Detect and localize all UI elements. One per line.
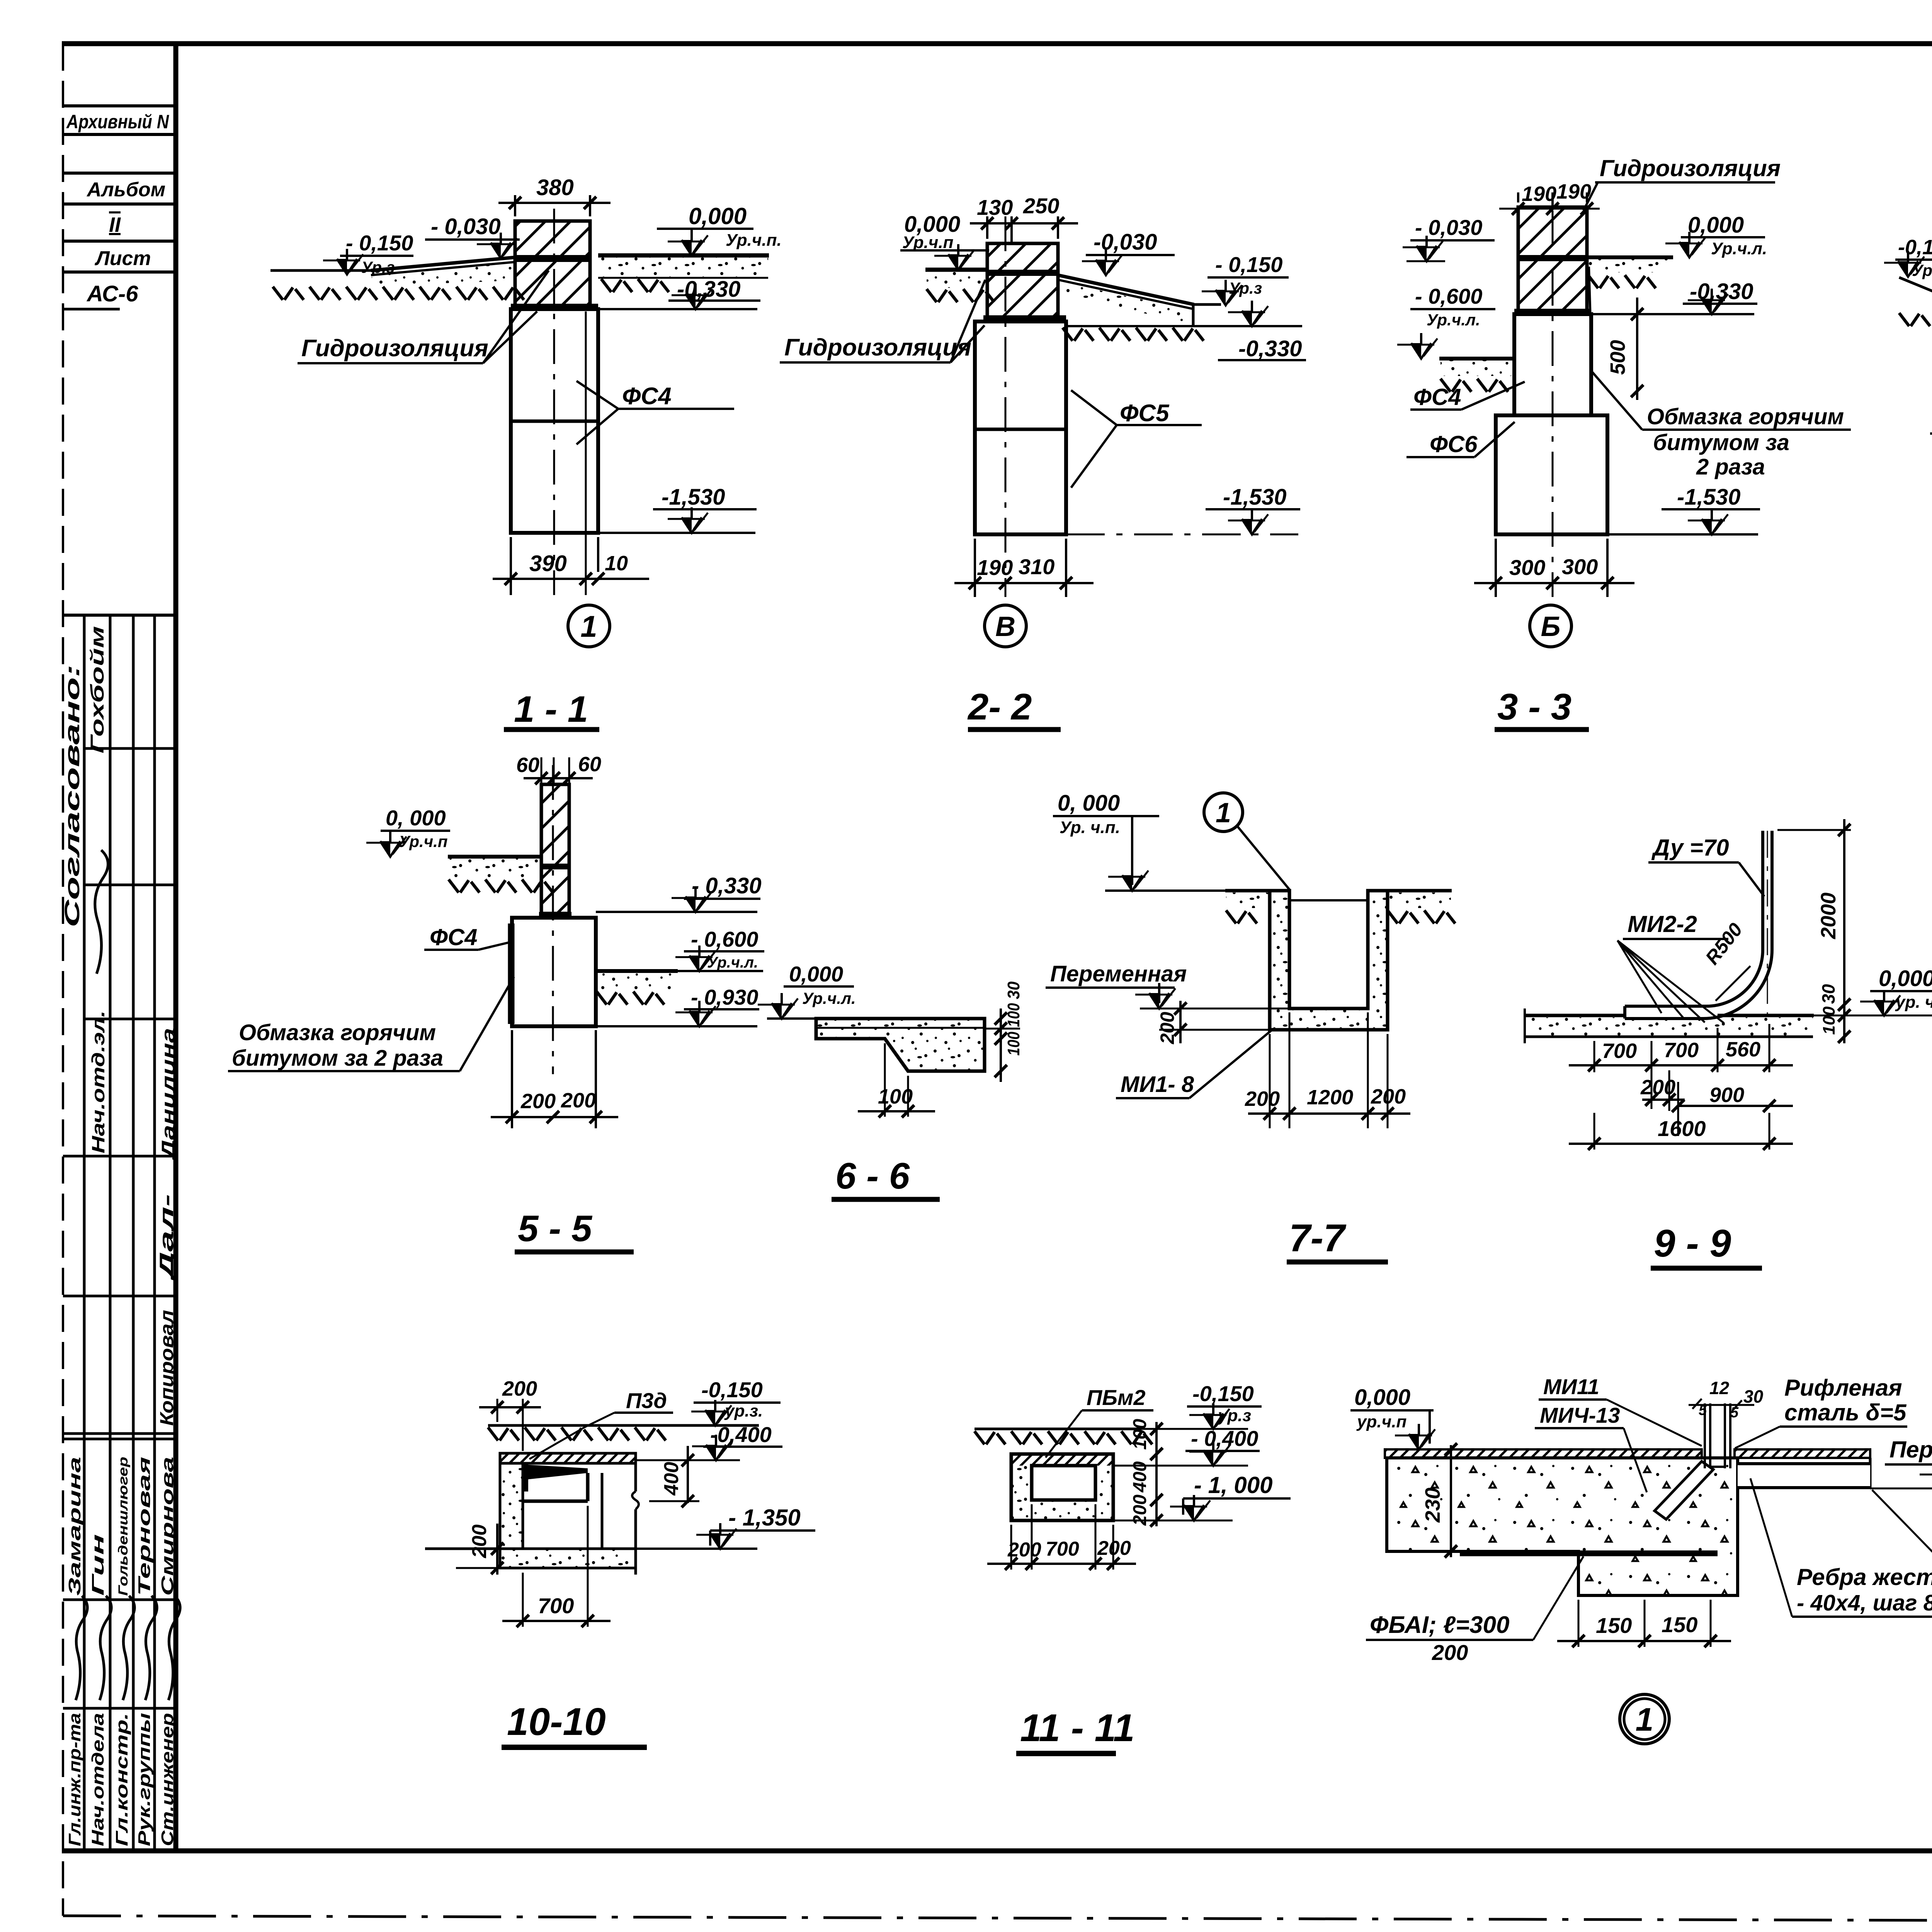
section 10-10 top dim 200 (497, 1399, 498, 1422)
section 3-3 floor left (-0.600) (1439, 357, 1514, 361)
section 11-11 level -0.400 (1185, 1450, 1260, 1452)
section 9-9 dim row3 1600 (1594, 1113, 1595, 1150)
svg-text:-0,150: -0,150 (701, 1378, 763, 1402)
svg-text:100: 100 (878, 1085, 913, 1108)
svg-text:30: 30 (1818, 984, 1838, 1004)
svg-text:Ур.з: Ур.з (1912, 261, 1932, 279)
svg-text:-1,530: -1,530 (1677, 485, 1740, 510)
signatures (squiggles) (76, 1596, 87, 1700)
svg-text:ФС4: ФС4 (430, 924, 478, 950)
svg-text:-0,330: -0,330 (1238, 336, 1302, 361)
svg-text:12: 12 (1709, 1378, 1730, 1398)
svg-text:Ст.инженер: Ст.инженер (158, 1713, 177, 1846)
section 5-5 thin wall (hatched) (541, 784, 569, 913)
section 4-4 level -0.150 ur.z far left (1895, 259, 1932, 261)
section 9-9 floor slab (1525, 1014, 1625, 1017)
svg-text:Гл.констр.: Гл.констр. (112, 1713, 131, 1846)
section 1-1 level -0.150 ur.z left (340, 255, 413, 257)
svg-text:1: 1 (580, 609, 597, 643)
section 7-7 detail circle 1 with leader (1204, 793, 1243, 832)
svg-text:- 0,330: - 0,330 (692, 873, 762, 898)
section 2-2 bottom dims 190 / 310 (974, 539, 976, 597)
svg-text:-0,150: -0,150 (1898, 236, 1932, 259)
svg-text:1: 1 (1636, 1701, 1654, 1738)
svg-text:100: 100 (1130, 1419, 1150, 1450)
svg-text:Дал-: Дал- (156, 1194, 177, 1282)
svg-text:- 0,150: - 0,150 (1215, 252, 1282, 277)
section 9-9 level 0.000 (1870, 990, 1932, 992)
section 3-3 level 0.000 right (1681, 236, 1765, 238)
section 10-10 level -1.350 (710, 1529, 815, 1532)
svg-text:200: 200 (468, 1524, 491, 1558)
section 3-3 wall (hatched) (1518, 207, 1587, 314)
svg-text:560: 560 (1726, 1038, 1760, 1061)
svg-text:-1,530: -1,530 (1223, 485, 1286, 510)
svg-text:В: В (995, 611, 1015, 642)
svg-text:10-10: 10-10 (507, 1700, 606, 1743)
svg-text:битумом за 2 раза: битумом за 2 раза (232, 1046, 443, 1071)
svg-text:Ур. ч.п.: Ур. ч.п. (1060, 818, 1120, 837)
svg-text:200: 200 (1640, 1076, 1675, 1099)
section 1-1 level 0.000 ur.ch.p right (657, 228, 753, 230)
svg-text:Переменная: Переменная (1889, 1437, 1932, 1463)
svg-text:- 0,030: - 0,030 (431, 214, 501, 239)
section 10-10 bottom dim 700 (522, 1573, 524, 1627)
node 1 vertical plates (riffled steel channel) (1704, 1403, 1706, 1468)
svg-text:700: 700 (538, 1594, 574, 1618)
section 10-10 level -0.400 (703, 1446, 782, 1448)
section 9-9 right vertical dim 2000/30/100 (1843, 819, 1845, 1043)
border frame top (62, 41, 1932, 46)
svg-text:9 - 9: 9 - 9 (1654, 1222, 1731, 1265)
left strip: Albom box (63, 172, 176, 175)
svg-text:Рифленая: Рифленая (1784, 1375, 1902, 1401)
section 1-1 centerline (553, 209, 555, 595)
svg-text:Переменная: Переменная (1050, 961, 1187, 986)
svg-text:Ур.ч.п.: Ур.ч.п. (726, 231, 782, 250)
svg-text:100: 100 (1004, 1003, 1023, 1027)
left strip: II (63, 240, 176, 243)
left strip: AC-6 (64, 308, 120, 311)
node 1 anchor MICh-13 diagonal strip (1655, 1461, 1713, 1519)
node 1 FBAI thick bar (1460, 1551, 1718, 1556)
svg-text:10: 10 (605, 552, 628, 575)
section 10-10 dim 400 vertical (687, 1446, 689, 1503)
section 5-5 bottom dims 200 200 (511, 1030, 513, 1128)
section 10-10 exterior grade line left (425, 1548, 500, 1550)
svg-text:- 0,030: - 0,030 (1415, 215, 1482, 240)
section 1-1 level -1.530 (598, 532, 755, 534)
svg-text:П3д: П3д (626, 1388, 667, 1413)
svg-text:Ур.ч.л.: Ур.ч.л. (1427, 311, 1480, 329)
section 6-6 right vertical dims 30 100 100 (1000, 1009, 1002, 1082)
svg-text:Обмазка горячим: Обмазка горячим (1647, 404, 1844, 429)
svg-text:1200: 1200 (1307, 1086, 1353, 1109)
section 9-9 bottom dims row1 700 700 560 (1594, 1041, 1595, 1072)
section 3-3 level -1.530 (1607, 533, 1758, 536)
section 5-5 level -0.330 (596, 911, 757, 913)
left strip: List box (63, 270, 176, 274)
svg-text:Ур.ч.л.: Ур.ч.л. (802, 989, 856, 1007)
svg-text:-1,530: -1,530 (662, 485, 725, 510)
section 10-10 bottom slab (stippled) (500, 1549, 636, 1568)
svg-text:- 0,150: - 0,150 (346, 231, 413, 255)
section 5-5 top dims 60 60 (524, 777, 593, 779)
svg-text:700: 700 (1046, 1538, 1079, 1560)
svg-text:Гл.инж.пр-та: Гл.инж.пр-та (65, 1713, 84, 1846)
svg-text:390: 390 (529, 551, 567, 576)
section 5-5 level -0.930 (596, 1025, 757, 1027)
svg-text:190: 190 (1556, 180, 1591, 203)
section 10-10 left wall (stippled) (500, 1463, 523, 1549)
svg-text:Смирнова: Смирнова (158, 1457, 177, 1596)
svg-text:190: 190 (1522, 182, 1556, 206)
svg-text:Лист: Лист (94, 247, 151, 270)
section 11-11 bottom dims 200 700 200 (1010, 1525, 1012, 1570)
svg-text:ФС4: ФС4 (1413, 384, 1461, 410)
svg-text:МИ1- 8: МИ1- 8 (1121, 1072, 1194, 1097)
node 1 floor finish hatched band (1385, 1449, 1702, 1458)
section 1-1 level -0.330 (598, 308, 757, 310)
section 5-5 centerline (552, 765, 554, 1074)
svg-text:ПБм2: ПБм2 (1087, 1385, 1146, 1410)
svg-text:Ур.з: Ур.з (361, 258, 395, 276)
svg-text:МИЧ-13: МИЧ-13 (1540, 1403, 1620, 1427)
svg-text:- 1, 000: - 1, 000 (1194, 1472, 1272, 1498)
svg-text:200: 200 (1097, 1537, 1131, 1560)
svg-text:200: 200 (502, 1377, 537, 1400)
section 1-1 axis circle 1 (568, 605, 610, 647)
section 7-7 left vertical dim 200 (1159, 1029, 1270, 1031)
section 7-7 channel trench (U shape, stippled walls) (1270, 891, 1388, 1030)
svg-text:200: 200 (1007, 1539, 1041, 1561)
section 2-2 foundation block FS5 (975, 321, 1066, 534)
section 11-11 walls stipple (1011, 1466, 1113, 1520)
svg-text:Б: Б (1541, 611, 1561, 642)
section 1-1 waterproofing band lower (511, 304, 598, 310)
section 5-5 foundation block FS4 (512, 918, 596, 1026)
svg-text:30: 30 (1004, 981, 1023, 999)
svg-text:190: 190 (977, 555, 1013, 580)
section 6-6 floor slab with edge thickening (816, 1019, 985, 1071)
svg-text:Гольденшлюгер: Гольденшлюгер (116, 1457, 131, 1596)
node 1 concrete mass (stippled with aggregate) (1387, 1458, 1738, 1595)
section 11-11 duct box outer (1011, 1454, 1113, 1520)
svg-text:- 0,600: - 0,600 (1415, 284, 1482, 308)
section 10-10 pit interior lines (523, 1500, 588, 1503)
section 11-11 interior cavity (1032, 1466, 1095, 1500)
svg-text:-0,030: -0,030 (1094, 230, 1157, 255)
section 3-3 dim 500 vertical (1636, 298, 1638, 400)
svg-text:Гидроизоляция: Гидроизоляция (301, 335, 488, 362)
svg-text:битумом за: битумом за (1653, 430, 1789, 455)
svg-text:- 0,400: - 0,400 (1191, 1426, 1258, 1451)
svg-text:Ур.ч.п: Ур.ч.п (399, 832, 448, 850)
section 3-3 floor right (0.000) (1587, 255, 1673, 259)
section 5-5 floor left 0.000 (448, 855, 541, 859)
svg-text:II: II (109, 213, 121, 236)
svg-text:2- 2: 2- 2 (967, 686, 1032, 728)
svg-text:0, 000: 0, 000 (1058, 791, 1120, 816)
svg-text:200: 200 (520, 1090, 556, 1113)
svg-text:1: 1 (1216, 798, 1231, 828)
section 10-10 level -0.150 ur.z (694, 1401, 781, 1404)
svg-text:ФС6: ФС6 (1430, 431, 1478, 457)
svg-text:1 - 1: 1 - 1 (514, 689, 588, 730)
node 1 dims 150 150 (1578, 1600, 1580, 1647)
bottom dash-dot trim line (63, 1916, 1932, 1922)
section 3-3 centerline (1552, 211, 1554, 597)
svg-text:Данилина: Данилина (158, 1028, 179, 1162)
svg-text:-0,150: -0,150 (1192, 1381, 1254, 1406)
section 3-3 upper foundation block FS4 (1514, 314, 1591, 415)
svg-text:60: 60 (578, 753, 601, 776)
svg-text:7-7: 7-7 (1289, 1216, 1347, 1260)
section 11-11 ground line (975, 1428, 1140, 1430)
svg-text:3 - 3: 3 - 3 (1497, 686, 1571, 728)
node 1 level 0.000 (1350, 1409, 1434, 1412)
svg-text:Согласовано:: Согласовано: (61, 665, 84, 927)
section 11-11 top slab hatched (1011, 1454, 1113, 1466)
svg-text:- 1,350: - 1,350 (728, 1505, 801, 1531)
svg-text:200: 200 (1432, 1640, 1468, 1665)
svg-text:100: 100 (1820, 1006, 1838, 1035)
svg-text:5 - 5: 5 - 5 (518, 1208, 593, 1249)
svg-text:400: 400 (1130, 1461, 1150, 1493)
section 10-10 top slab (hatched) (500, 1453, 636, 1463)
svg-text:130: 130 (977, 195, 1013, 219)
section 10-10 ground line (488, 1424, 759, 1427)
section 2-2 pavement right slope (1058, 275, 1194, 304)
svg-text:300: 300 (1562, 554, 1598, 579)
svg-text:Нач.отд.эл.: Нач.отд.эл. (88, 1010, 108, 1153)
section 11-11 level -1.000 (1183, 1497, 1291, 1500)
svg-text:60: 60 (516, 753, 539, 777)
svg-text:2000: 2000 (1817, 893, 1840, 939)
svg-text:сталь δ=5: сталь δ=5 (1784, 1400, 1907, 1425)
section 7-7 level 0.000 (1053, 815, 1159, 817)
svg-text:150: 150 (1596, 1613, 1632, 1638)
svg-text:Копировал: Копировал (157, 1310, 177, 1426)
svg-text:АС-6: АС-6 (86, 281, 138, 306)
svg-text:Альбом: Альбом (86, 179, 165, 201)
svg-text:200: 200 (1156, 1012, 1178, 1044)
section 3-3 bottom dims 300 300 (1495, 539, 1497, 597)
svg-text:Ду =70: Ду =70 (1651, 835, 1729, 861)
svg-text:230: 230 (1421, 1488, 1444, 1523)
svg-text:500: 500 (1606, 340, 1629, 375)
svg-text:Ур.ч.п: Ур.ч.п (902, 233, 954, 252)
svg-text:МИ11: МИ11 (1543, 1374, 1599, 1399)
section 3-3 lower foundation block FS6 (1496, 415, 1607, 534)
svg-text:Гидроизоляция: Гидроизоляция (1600, 155, 1781, 181)
section 2-2 level 0.000 left (900, 249, 989, 252)
section 1-1 bottom dims 390 / 10 (510, 537, 512, 595)
svg-text:Рук.группы: Рук.группы (135, 1713, 154, 1846)
svg-text:- 40х4, шаг 800: - 40х4, шаг 800 (1797, 1590, 1932, 1616)
svg-text:700: 700 (1602, 1039, 1637, 1063)
section 2-2 level -1.530 (1066, 534, 1298, 536)
section 2-2 top dims 130 250 (986, 216, 988, 239)
svg-text:11 - 11: 11 - 11 (1020, 1706, 1134, 1750)
section 2-2 floor left (0.000) (925, 268, 987, 272)
svg-text:Обмазка горячим: Обмазка горячим (239, 1020, 436, 1045)
node 1 detail circle 1 (double) (1620, 1694, 1669, 1744)
svg-text:400: 400 (660, 1462, 683, 1496)
section 6-6 bottom dim 100 (884, 1043, 886, 1117)
svg-text:Ур.ч.л.: Ур.ч.л. (1711, 239, 1767, 258)
section 5-5 level 0.000 (381, 830, 450, 832)
node 1 dim 230 vertical (1450, 1445, 1452, 1557)
section 3-3 level -0.330 right (1591, 313, 1754, 315)
section 11-11 level -0.150 ur.z (1187, 1405, 1262, 1408)
section 11-11 right vertical dims 100 400 200 (1155, 1422, 1158, 1526)
svg-text:200: 200 (1245, 1087, 1280, 1111)
svg-text:200: 200 (1371, 1085, 1406, 1108)
section 9-9 dims row2 200 900 (1668, 1070, 1670, 1111)
section 5-5 waterproofing bands (541, 864, 569, 869)
svg-text:ур.ч.п: ур.ч.п (1356, 1412, 1406, 1431)
left strip signature table grid (63, 614, 176, 617)
svg-text:ур.з.: ур.з. (724, 1401, 763, 1420)
svg-text:R500: R500 (1701, 919, 1747, 969)
svg-text:6 - 6: 6 - 6 (835, 1155, 910, 1197)
svg-text:- 0,930: - 0,930 (691, 985, 758, 1009)
svg-text:Архивный N: Архивный N (66, 111, 169, 133)
svg-text:1600: 1600 (1658, 1116, 1706, 1141)
section 1-1 level -0.030 (425, 238, 520, 241)
left strip outer edge (62, 44, 64, 1916)
svg-text:0,000: 0,000 (1688, 213, 1744, 238)
section 2-2 wall (hatched) (987, 243, 1058, 321)
svg-text:0,000: 0,000 (1879, 966, 1932, 991)
svg-text:0, 000: 0, 000 (386, 806, 446, 830)
section 5-5 bitumen smear left edge (508, 923, 515, 1024)
svg-text:ФБАI; ℓ=300: ФБАI; ℓ=300 (1370, 1612, 1509, 1638)
svg-text:30: 30 (1743, 1386, 1764, 1406)
svg-text:900: 900 (1709, 1083, 1744, 1107)
svg-text:300: 300 (1509, 555, 1545, 580)
section 7-7 bottom dims 200 1200 200 (1269, 1034, 1271, 1128)
section 2-2 waterproofing bands (987, 270, 1058, 276)
section 1-1 pavement left (slope) (371, 257, 515, 270)
section 6-6 level 0.000 (784, 985, 854, 988)
section 1-1 waterproofing band upper (515, 255, 590, 262)
svg-text:Гохбойм: Гохбойм (87, 626, 108, 753)
svg-text:МИ2-2: МИ2-2 (1628, 911, 1697, 937)
section 3-3 level -0.600 ur.ch.l left (1410, 308, 1495, 310)
left strip: Archive No box (63, 104, 176, 107)
section 7-7 floor right (1388, 889, 1452, 893)
svg-text:2 раза: 2 раза (1696, 454, 1765, 480)
svg-text:Замарина: Замарина (65, 1457, 84, 1596)
svg-text:ФС4: ФС4 (622, 383, 672, 410)
svg-text:Гидроизоляция: Гидроизоляция (784, 334, 971, 361)
svg-text:100: 100 (1004, 1032, 1023, 1056)
section 3-3 waterproofing bands (1518, 255, 1587, 261)
svg-text:0,000: 0,000 (689, 203, 747, 229)
svg-text:200: 200 (1130, 1495, 1150, 1526)
svg-text:Ур.ч.л.: Ур.ч.л. (707, 954, 758, 971)
svg-text:ФС5: ФС5 (1120, 400, 1170, 427)
section 3-3 axis circle B (1530, 605, 1571, 647)
section 1-1 wall (hatched brick) (515, 221, 590, 309)
section 5-5 level -0.600 (678, 970, 763, 972)
section 7-7 floor left (1225, 889, 1270, 893)
section 5-5 floor right -0.600 (596, 969, 678, 973)
svg-text:250: 250 (1023, 194, 1059, 218)
svg-text:Гин: Гин (88, 1534, 107, 1596)
svg-text:- 0,600: - 0,600 (691, 927, 758, 951)
section 1-1 floor right (0.000) (598, 253, 769, 258)
section 1-1 top dimension 380 (514, 195, 516, 216)
section 2-2 centerline (1005, 216, 1007, 597)
section 2-2 level -0.030 (1086, 254, 1175, 256)
section 10-10 dim 200 left vertical (496, 1524, 498, 1575)
svg-text:Нач.отдела: Нач.отдела (88, 1713, 107, 1846)
svg-text:380: 380 (536, 175, 574, 200)
border frame bottom (62, 1849, 1932, 1854)
svg-text:150: 150 (1662, 1612, 1697, 1637)
section 2-2 axis circle V (985, 605, 1026, 647)
section 9-9 pipe Du=70 (L-bend R500) (1625, 831, 1763, 1006)
svg-text:0,000: 0,000 (1354, 1385, 1410, 1410)
svg-text:Терновая: Терновая (135, 1457, 154, 1596)
border frame inner-left vertical (173, 44, 179, 1851)
section 1-1 foundation block FS4 (511, 309, 598, 533)
svg-text:200: 200 (561, 1089, 596, 1112)
section 3-3 top dims 190 190 (1517, 192, 1519, 202)
section 2-2 level -0.150 ur.z (1207, 276, 1289, 279)
svg-text:-0,330: -0,330 (677, 277, 740, 302)
svg-text:-0,400: -0,400 (710, 1422, 772, 1447)
section 3-3 level -0.030 left (1410, 239, 1495, 241)
section 10-10 black corner wedge (523, 1464, 588, 1480)
svg-text:Ребра жесткости: Ребра жесткости (1797, 1564, 1932, 1590)
section 2-2 level -0.330 (1066, 325, 1302, 327)
svg-text:0,000: 0,000 (789, 962, 843, 986)
node 1 right slab (1869, 1458, 1872, 1488)
svg-text:700: 700 (1664, 1039, 1699, 1062)
svg-text:310: 310 (1019, 554, 1054, 579)
